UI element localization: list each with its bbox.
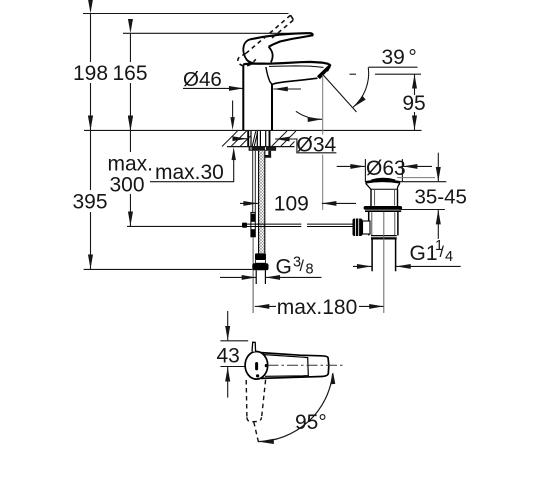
- pop-up waste body: [369, 212, 398, 238]
- spout aerator: [317, 65, 330, 79]
- dimension 198: [73, 14, 108, 131]
- braided hose: [259, 151, 265, 254]
- svg-text:G1: G1: [410, 242, 438, 265]
- dimension 35-45: [397, 153, 467, 239]
- svg-text:300: 300: [110, 174, 145, 197]
- bottom view: handle pivot: [245, 342, 268, 379]
- label 95 degrees: [295, 411, 327, 434]
- bottom view: centerline: [268, 364, 344, 366]
- dimension 165: [112, 33, 147, 130]
- 39 degree angle line: [323, 75, 357, 113]
- dimension 95: [350, 74, 426, 130]
- dimension max.300: [108, 131, 154, 226]
- bottom view: dashed lever rotated: [246, 380, 265, 444]
- dimension max.180: [255, 296, 384, 319]
- label 39 degrees: [369, 46, 418, 69]
- pop-up waste flange: [364, 206, 403, 211]
- pop-up rod horizontal: [247, 224, 353, 226]
- label G1 1/4: [353, 238, 461, 266]
- deck bottom line: [227, 146, 310, 148]
- pop-up waste dome cap: [365, 179, 400, 189]
- tailpipe centerline: [383, 212, 385, 313]
- svg-text:95°: 95°: [295, 411, 327, 434]
- spout tip vertical extension line: [322, 75, 324, 210]
- G3/8 hose fitting: [252, 253, 268, 284]
- pop-up waste tailpipe: [372, 240, 396, 272]
- dimension 395: [72, 130, 107, 269]
- svg-text:max.: max.: [108, 153, 154, 176]
- svg-text:109: 109: [274, 193, 309, 216]
- svg-text:35-45: 35-45: [415, 186, 467, 209]
- deck hatching: [222, 131, 297, 147]
- svg-text:4: 4: [445, 249, 453, 265]
- svg-text:43: 43: [217, 345, 240, 368]
- pop-up rod cross coupling: [242, 212, 255, 236]
- svg-text:/: /: [300, 258, 305, 275]
- pop-up waste neck: [371, 189, 398, 206]
- dimension 109: [240, 193, 356, 216]
- svg-text:max.30: max.30: [155, 161, 224, 184]
- label diameter 46: [183, 68, 301, 91]
- faucet lever handle side view: [243, 33, 312, 64]
- svg-text:max.180: max.180: [277, 296, 358, 319]
- bottom view: 95 degree arc: [258, 372, 335, 441]
- pull rod below faucet: [253, 151, 256, 213]
- deck top line: [84, 129, 422, 131]
- pop-up waste actuator knob: [353, 219, 371, 237]
- svg-text:Ø46: Ø46: [183, 68, 222, 91]
- svg-text:39°: 39°: [382, 46, 417, 69]
- 39 degree arc with arrows: [296, 67, 369, 119]
- rod extension line below: [252, 237, 254, 313]
- label max.30: [150, 101, 236, 185]
- svg-text:198: 198: [73, 62, 108, 85]
- bottom view: dimension 43: [217, 311, 249, 398]
- reference line max.300 to pop-up rod: [127, 225, 243, 227]
- pop-up waste: label diameter 63: [337, 157, 432, 182]
- dashed handle raised position: [238, 15, 294, 66]
- svg-text:165: 165: [112, 62, 147, 85]
- reference line 395 bottom: [84, 268, 253, 270]
- svg-text:95: 95: [402, 92, 425, 115]
- faucet shank through deck: [248, 131, 269, 147]
- faucet body side view: [243, 62, 330, 130]
- extension line top 165: [123, 32, 295, 34]
- extension line top 198: [83, 13, 289, 15]
- svg-text:8: 8: [306, 262, 314, 278]
- mounting washer below deck: [249, 147, 277, 157]
- svg-text:Ø63: Ø63: [366, 157, 406, 180]
- label G3/8: [220, 255, 322, 279]
- label diameter 34: [238, 134, 338, 157]
- bottom view: lever solid: [261, 353, 329, 379]
- svg-text:G: G: [276, 256, 292, 279]
- svg-text:395: 395: [72, 191, 107, 214]
- svg-text:/: /: [440, 244, 445, 261]
